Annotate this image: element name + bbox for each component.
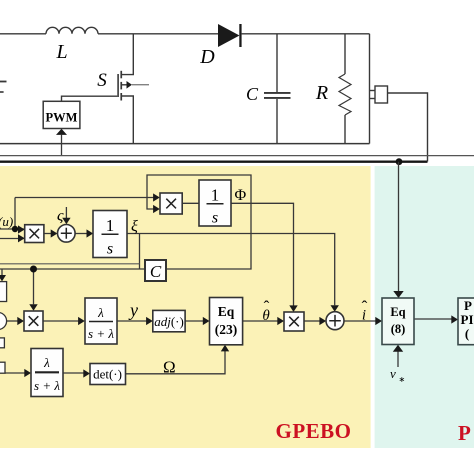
- svg-text:det(·): det(·): [93, 367, 122, 382]
- svg-text:PWM: PWM: [46, 111, 78, 125]
- svg-text:R: R: [315, 82, 328, 104]
- svg-text:λ: λ: [97, 305, 104, 320]
- svg-text:C: C: [150, 262, 162, 281]
- svg-text:(23): (23): [215, 322, 238, 337]
- svg-text:Φ: Φ: [235, 187, 247, 204]
- svg-text:P: P: [464, 298, 472, 313]
- svg-text:∗: ∗: [399, 375, 406, 384]
- svg-text:1: 1: [211, 186, 220, 205]
- svg-text:C: C: [246, 84, 259, 104]
- svg-text:(: (: [465, 326, 469, 341]
- svg-text:(8): (8): [391, 322, 406, 336]
- svg-text:GPEBO: GPEBO: [275, 419, 351, 443]
- svg-text:1: 1: [106, 216, 115, 235]
- svg-text:Eq: Eq: [390, 305, 405, 319]
- svg-text:y: y: [128, 300, 138, 320]
- svg-text:P: P: [458, 421, 471, 445]
- svg-text:λ: λ: [43, 355, 50, 370]
- svg-text:PI: PI: [461, 312, 474, 327]
- svg-text:ς: ς: [57, 208, 64, 225]
- svg-text:Eq: Eq: [218, 304, 235, 319]
- svg-text:ξ: ξ: [131, 218, 138, 235]
- svg-text:ˆ: ˆ: [264, 298, 270, 317]
- svg-text:D: D: [199, 46, 215, 68]
- svg-text:Ω: Ω: [163, 358, 176, 377]
- svg-text:ˆ: ˆ: [362, 298, 368, 317]
- svg-text:s: s: [107, 241, 113, 258]
- svg-text:v: v: [390, 366, 396, 381]
- svg-text:s + λ: s + λ: [88, 326, 114, 341]
- svg-text:(u): (u): [0, 214, 13, 229]
- svg-text:s: s: [212, 210, 218, 227]
- svg-text:L: L: [55, 41, 67, 63]
- svg-text:S: S: [97, 70, 107, 91]
- svg-text:s + λ: s + λ: [34, 378, 60, 393]
- svg-text:adj(·): adj(·): [154, 314, 184, 329]
